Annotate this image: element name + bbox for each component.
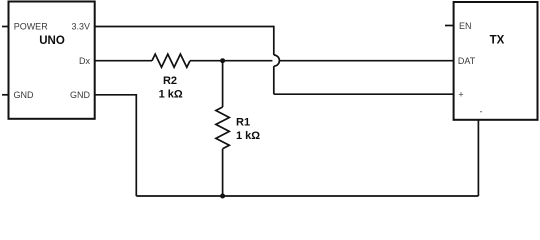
junction dot (ground rail / R1 bottom): [220, 194, 225, 199]
svg-text:GND: GND: [14, 90, 35, 100]
wire 3.3V vertical lower (hop down to + row): [273, 66, 275, 94]
wire ground rail up to TX - pin: [477, 120, 479, 197]
resistor R1 (vertical zigzag): [216, 107, 229, 149]
pin GND left stub: [2, 94, 9, 96]
wire hop (3.3V wire jumps over DAT wire): [274, 55, 280, 66]
wire GND vertical down: [135, 94, 137, 196]
svg-text:R1: R1: [236, 117, 250, 129]
wire GND (UNO GND pin to down corner): [95, 94, 137, 96]
wire 3.3V vertical upper (corner down to hop): [273, 26, 275, 55]
wire ground rail (bottom): [136, 195, 478, 197]
wire 3.3V horizontal (UNO 3.3V to corner): [95, 26, 274, 28]
svg-text:1 kΩ: 1 kΩ: [159, 89, 183, 101]
svg-text:Dx: Dx: [79, 56, 90, 66]
wire Dx (UNO Dx pin to R2): [95, 60, 152, 62]
pin POWER stub: [2, 26, 9, 28]
svg-text:1 kΩ: 1 kΩ: [236, 130, 260, 142]
wire R2 to hop gap (through junction): [190, 60, 272, 62]
svg-text:EN: EN: [459, 21, 472, 31]
wire junction down to R1: [222, 61, 224, 107]
IC U2 TX (right module body): [454, 2, 538, 120]
wire R1 bottom to ground rail: [222, 149, 224, 196]
svg-text:R2: R2: [163, 75, 177, 87]
IC U1 UNO (left module body): [9, 2, 95, 119]
wire + row (corner to TX + pin): [274, 93, 454, 95]
resistor R2 (zigzag): [152, 54, 190, 67]
svg-text:POWER: POWER: [14, 22, 49, 32]
svg-text:+: +: [458, 90, 463, 100]
svg-text:GND: GND: [70, 90, 91, 100]
svg-text:-: -: [480, 107, 483, 117]
svg-text:TX: TX: [490, 35, 505, 47]
svg-text:DAT: DAT: [458, 56, 476, 66]
pin EN stub: [445, 25, 454, 27]
svg-text:3.3V: 3.3V: [71, 22, 90, 32]
junction dot (Dx node / R1 top): [220, 58, 225, 63]
wire DAT (hop gap to TX DAT pin): [280, 60, 454, 62]
svg-text:UNO: UNO: [39, 35, 65, 47]
